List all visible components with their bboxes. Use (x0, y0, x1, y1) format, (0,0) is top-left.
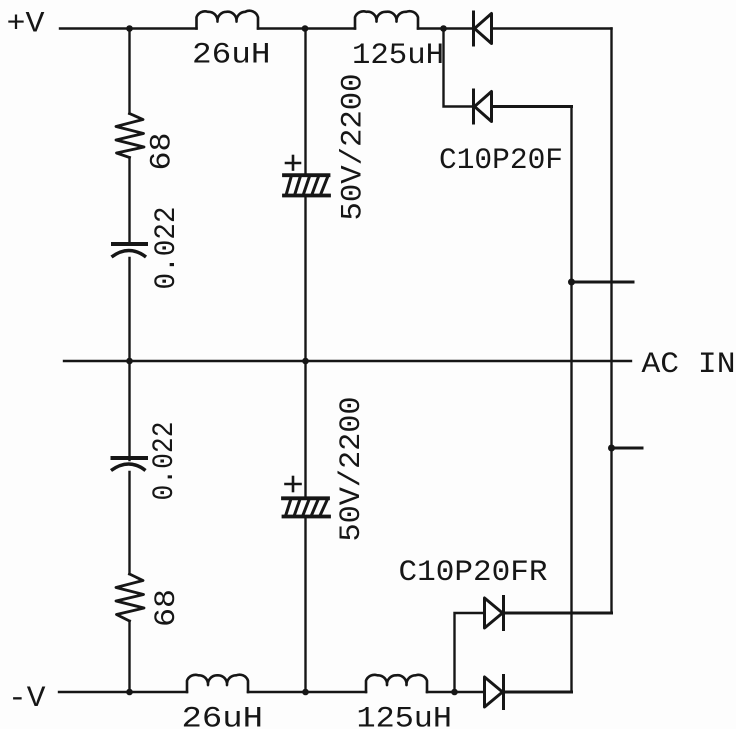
wire R2 to bottom rail (128, 621, 130, 692)
wire E1 to middle (304, 197, 306, 497)
junction dot middle at R branch (126, 358, 133, 365)
svg-text:50V/2200: 50V/2200 (335, 397, 369, 542)
inductor L1 26uH top (197, 11, 259, 29)
electrolytic cap E1 bottom plate (284, 194, 329, 198)
wire ecap vertical top (304, 29, 306, 175)
svg-text:68: 68 (150, 589, 184, 627)
wire bottom rail left (59, 691, 187, 693)
electrolytic cap E2 bottom plate (284, 515, 330, 519)
electrolytic cap E2 hatched body (286, 500, 327, 514)
svg-text:26uH: 26uH (192, 39, 271, 73)
diode D2 C10P20F lower (cathode bar) (472, 90, 475, 123)
wire AC line 2 vertical (610, 29, 612, 614)
wire AC stub 2 (612, 447, 643, 450)
electrolytic cap E1 hatched body (287, 177, 328, 193)
wire riser to D3 (455, 613, 485, 692)
diode D3 triangle (485, 598, 503, 628)
wire D1 to right vertical (492, 27, 612, 29)
junction dot bottom rail at R branch (126, 689, 133, 696)
wire bottom rail mid (248, 691, 366, 693)
junction dot top rail at ecap branch (302, 25, 309, 32)
wire left vertical top (to R1) (128, 29, 130, 114)
resistor R2 68 (116, 574, 144, 621)
wire AC line 1 vertical (570, 107, 572, 693)
svg-text:+V: +V (7, 8, 45, 42)
svg-text:26uH: 26uH (182, 703, 264, 729)
svg-text:-V: -V (8, 682, 46, 716)
wire D3 to AC line 2 (504, 612, 612, 615)
capacitor C2 curved plate (111, 464, 146, 471)
capacitor C1 curved plate (112, 251, 147, 258)
wire middle AC center line (64, 360, 631, 362)
wire top rail left (60, 27, 197, 29)
svg-text:C10P20FR: C10P20FR (399, 556, 548, 590)
diode D4 cathode bar (502, 676, 505, 709)
inductor L3 26uH bottom (187, 675, 248, 692)
junction dot bottom rail at ecap branch (302, 689, 309, 696)
junction dot top rail at diode branch (440, 25, 447, 32)
svg-text:0.022: 0.022 (148, 422, 182, 501)
electrolytic cap E1 plus sign (286, 156, 300, 170)
wire C1 to middle (128, 258, 130, 460)
resistor R1 68 (116, 114, 144, 158)
capacitor C1 0.022 top plate (113, 242, 146, 246)
svg-text:C10P20F: C10P20F (439, 144, 563, 178)
wire top rail mid (258, 27, 355, 29)
svg-text:AC IN: AC IN (642, 348, 736, 382)
wire vertical branch D2 (444, 29, 474, 107)
svg-text:125uH: 125uH (357, 703, 453, 729)
diode D2 triangle (475, 92, 492, 122)
inductor L4 125uH bottom (366, 675, 427, 692)
inductor L2 125uH top (355, 11, 418, 28)
junction dot top rail at R branch (126, 25, 133, 32)
junction dot middle at ecap branch (302, 358, 309, 365)
wire bottom rail to D4 (427, 691, 484, 693)
wire top rail right (418, 27, 473, 29)
wire E2 to bottom rail (304, 518, 306, 692)
capacitor C2 0.022 top plate (113, 456, 147, 460)
electrolytic cap E1 top plate (284, 173, 329, 177)
diode D1 triangle (475, 14, 492, 44)
diode D3 cathode bar (502, 597, 505, 630)
junction dot stub 1 (568, 279, 575, 286)
wire R1 to C1 (128, 158, 130, 243)
diode D4 triangle (485, 677, 503, 707)
svg-text:50V/2200: 50V/2200 (337, 74, 371, 221)
electrolytic cap E2 plus sign (286, 477, 301, 491)
diode D1 C10P20F upper (cathode bar) (472, 12, 475, 45)
electrolytic cap E2 top plate (283, 496, 328, 500)
wire AC stub 1 (572, 281, 634, 284)
wire D2 to AC line 1 (492, 105, 572, 108)
junction dot stub 2 (608, 445, 615, 452)
svg-text:0.022: 0.022 (150, 207, 184, 290)
svg-text:68: 68 (146, 133, 180, 171)
junction dot bottom rail at riser (451, 689, 458, 696)
wire D4 to AC line 1 (504, 691, 572, 694)
svg-text:125uH: 125uH (352, 39, 444, 73)
wire C2 to R2 (128, 472, 130, 574)
